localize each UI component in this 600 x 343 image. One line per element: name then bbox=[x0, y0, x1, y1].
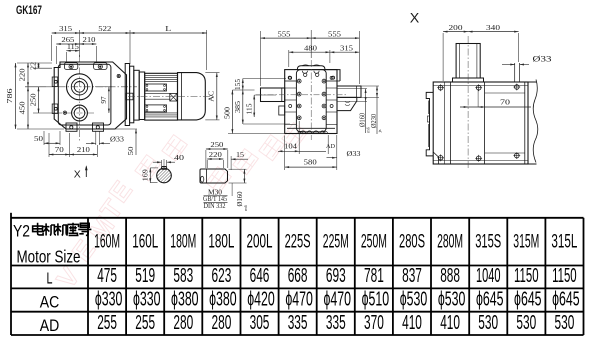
svg-text:225M: 225M bbox=[323, 232, 349, 253]
svg-text:50: 50 bbox=[34, 134, 43, 143]
svg-text:646: 646 bbox=[250, 265, 270, 287]
svg-text:160L: 160L bbox=[132, 232, 158, 253]
svg-text:40: 40 bbox=[174, 153, 184, 162]
svg-text:480: 480 bbox=[304, 43, 317, 52]
svg-text:AC: AC bbox=[206, 91, 215, 102]
svg-text:115: 115 bbox=[246, 103, 254, 115]
svg-text:Ø33: Ø33 bbox=[110, 135, 124, 144]
svg-text:169: 169 bbox=[142, 169, 150, 182]
svg-text:Ø160: Ø160 bbox=[359, 112, 366, 127]
svg-text:519: 519 bbox=[135, 265, 155, 287]
svg-text:L: L bbox=[47, 271, 53, 288]
svg-text:1150: 1150 bbox=[514, 265, 539, 287]
svg-text:255: 255 bbox=[135, 312, 155, 334]
svg-text:160M: 160M bbox=[94, 232, 120, 253]
svg-text:97: 97 bbox=[99, 96, 108, 104]
svg-text:50: 50 bbox=[127, 146, 135, 156]
svg-text:104: 104 bbox=[284, 142, 298, 150]
svg-text:250: 250 bbox=[210, 140, 223, 149]
svg-text:ϕ530: ϕ530 bbox=[438, 288, 466, 310]
svg-text:1150: 1150 bbox=[552, 265, 577, 287]
svg-text:200L: 200L bbox=[247, 232, 273, 253]
svg-text:786: 786 bbox=[5, 88, 14, 103]
svg-text:15: 15 bbox=[236, 150, 244, 159]
svg-text:410: 410 bbox=[440, 312, 460, 334]
svg-text:AD: AD bbox=[40, 317, 60, 335]
svg-text:315: 315 bbox=[59, 24, 72, 33]
svg-text:255: 255 bbox=[97, 312, 117, 334]
svg-text:450: 450 bbox=[18, 101, 27, 114]
svg-text:280M: 280M bbox=[437, 232, 463, 253]
svg-text:530: 530 bbox=[478, 312, 498, 334]
svg-text:250M: 250M bbox=[361, 232, 387, 253]
svg-text:335: 335 bbox=[326, 312, 346, 334]
svg-text:180M: 180M bbox=[170, 232, 196, 253]
svg-text:m6: m6 bbox=[365, 126, 370, 133]
svg-text:530: 530 bbox=[555, 312, 575, 334]
svg-text:250: 250 bbox=[28, 93, 37, 106]
svg-text:225S: 225S bbox=[285, 232, 311, 253]
svg-text:Y2: Y2 bbox=[13, 222, 30, 241]
svg-text:280: 280 bbox=[173, 312, 193, 334]
svg-text:Motor Size: Motor Size bbox=[17, 247, 81, 267]
svg-text:ϕ380: ϕ380 bbox=[171, 288, 199, 310]
svg-text:693: 693 bbox=[326, 265, 346, 287]
svg-text:Ø33: Ø33 bbox=[347, 149, 361, 158]
svg-text:555: 555 bbox=[328, 29, 341, 38]
svg-text:315S: 315S bbox=[475, 232, 501, 253]
svg-text:ϕ470: ϕ470 bbox=[323, 288, 351, 310]
svg-text:220: 220 bbox=[209, 150, 222, 159]
svg-text:623: 623 bbox=[212, 265, 232, 287]
svg-text:500: 500 bbox=[224, 106, 232, 119]
svg-text:Ø160: Ø160 bbox=[237, 191, 244, 207]
svg-text:180L: 180L bbox=[208, 232, 234, 253]
svg-text:js: js bbox=[377, 129, 382, 133]
svg-text:ϕ330: ϕ330 bbox=[133, 288, 161, 310]
svg-text:781: 781 bbox=[364, 265, 384, 287]
svg-text:530: 530 bbox=[516, 312, 536, 334]
svg-text:L: L bbox=[165, 24, 172, 33]
svg-text:ϕ530: ϕ530 bbox=[400, 288, 428, 310]
svg-text:ϕ420: ϕ420 bbox=[247, 288, 275, 310]
svg-text:668: 668 bbox=[288, 265, 308, 287]
svg-text:583: 583 bbox=[173, 265, 193, 287]
svg-text:ϕ380: ϕ380 bbox=[209, 288, 237, 310]
svg-text:410: 410 bbox=[402, 312, 422, 334]
svg-text:22: 22 bbox=[30, 61, 38, 70]
svg-text:315M: 315M bbox=[513, 232, 539, 253]
svg-text:210: 210 bbox=[83, 35, 96, 44]
svg-text:220: 220 bbox=[18, 68, 27, 81]
svg-text:210: 210 bbox=[77, 145, 90, 154]
svg-text:475: 475 bbox=[97, 265, 117, 287]
svg-text:888: 888 bbox=[440, 265, 460, 287]
svg-text:DIN 332: DIN 332 bbox=[204, 202, 226, 210]
svg-text:GK167: GK167 bbox=[16, 5, 42, 17]
svg-text:70: 70 bbox=[500, 98, 510, 107]
svg-text:115: 115 bbox=[67, 42, 79, 51]
svg-text:200: 200 bbox=[449, 23, 463, 32]
svg-text:370: 370 bbox=[364, 312, 384, 334]
svg-text:X: X bbox=[410, 11, 420, 26]
svg-text:315L: 315L bbox=[551, 232, 577, 253]
svg-text:ϕ510: ϕ510 bbox=[362, 288, 390, 310]
svg-text:280S: 280S bbox=[399, 232, 425, 253]
svg-text:335: 335 bbox=[288, 312, 308, 334]
svg-text:m6: m6 bbox=[243, 204, 248, 211]
svg-text:ϕ645: ϕ645 bbox=[476, 288, 504, 310]
svg-text:ϕ645: ϕ645 bbox=[514, 288, 542, 310]
svg-text:1040: 1040 bbox=[476, 265, 501, 287]
svg-text:AC: AC bbox=[40, 294, 60, 312]
svg-text:ϕ645: ϕ645 bbox=[552, 288, 580, 310]
svg-text:340: 340 bbox=[486, 23, 500, 32]
svg-text:837: 837 bbox=[402, 265, 422, 287]
svg-text:Ø33: Ø33 bbox=[533, 55, 552, 64]
svg-text:ϕ470: ϕ470 bbox=[285, 288, 313, 310]
svg-text:AD: AD bbox=[326, 143, 336, 150]
svg-text:280: 280 bbox=[212, 312, 232, 334]
svg-text:555: 555 bbox=[278, 29, 291, 38]
svg-text:305: 305 bbox=[250, 312, 270, 334]
svg-text:155: 155 bbox=[235, 78, 242, 90]
svg-text:ϕ330: ϕ330 bbox=[95, 288, 123, 310]
svg-text:580: 580 bbox=[304, 159, 318, 167]
svg-text:315: 315 bbox=[340, 43, 353, 52]
svg-text:70: 70 bbox=[55, 145, 64, 154]
svg-text:Ø230: Ø230 bbox=[371, 113, 378, 128]
svg-text:385: 385 bbox=[234, 100, 242, 113]
svg-text:522: 522 bbox=[98, 24, 111, 33]
svg-text:X: X bbox=[74, 169, 81, 181]
